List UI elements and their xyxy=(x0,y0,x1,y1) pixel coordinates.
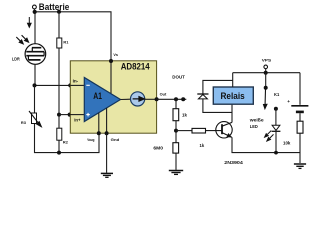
wire DOUT rail xyxy=(157,98,187,100)
arrow current direction down xyxy=(28,17,32,27)
resistor 10k xyxy=(283,121,303,145)
svg-text:Vaug: Vaug xyxy=(87,137,95,142)
svg-text:2N3904: 2N3904 xyxy=(224,160,243,165)
wire VPS rail xyxy=(233,72,300,74)
junction Gnd pin xyxy=(105,131,109,135)
wire 1k to base junction xyxy=(175,121,177,143)
ground symbol right xyxy=(294,164,306,168)
resistor R2 xyxy=(57,128,69,144)
wire out inner xyxy=(145,98,157,100)
svg-text:Gnd: Gnd xyxy=(111,137,120,142)
svg-text:AD8214: AD8214 xyxy=(121,61,150,71)
junction R2 bottom rail xyxy=(57,151,61,155)
svg-text:R1: R1 xyxy=(63,39,69,44)
svg-text:K1: K1 xyxy=(274,92,280,97)
junction In- at box edge xyxy=(68,83,72,87)
wire Vaug pin inner xyxy=(98,113,100,133)
svg-text:weiße: weiße xyxy=(249,117,265,122)
pin Out xyxy=(155,92,167,102)
transistor Q1 2N3904 xyxy=(216,122,244,165)
wire emitter down to rail xyxy=(232,137,300,152)
junction In+ at box edge xyxy=(68,113,72,117)
svg-text:1k: 1k xyxy=(200,143,205,148)
op-amp U1 AD8214 block xyxy=(70,61,156,133)
resistor 1k base xyxy=(192,128,206,148)
node VPS terminal xyxy=(262,58,272,75)
switch K1 xyxy=(264,73,280,111)
resistor R3 variable xyxy=(21,111,41,127)
junction DOUT end xyxy=(181,97,185,101)
relay K relais box xyxy=(213,87,253,104)
junction LED rail xyxy=(274,151,278,155)
wire diode branch top xyxy=(203,80,233,93)
arrow light ray 2 into LDR xyxy=(22,35,29,42)
wire base line xyxy=(176,130,192,132)
junction base tap xyxy=(174,129,178,133)
resistor 6M0 xyxy=(153,143,178,153)
junction battery node xyxy=(33,10,37,14)
svg-text:A1: A1 xyxy=(93,91,102,101)
LED D2 white xyxy=(249,117,281,131)
wire collector up to relay xyxy=(231,104,233,122)
ground symbol AD8214 xyxy=(101,173,113,177)
svg-text:Batterie: Batterie xyxy=(39,2,70,12)
svg-text:Vs: Vs xyxy=(113,53,118,57)
wire switch to LED xyxy=(275,109,277,126)
wire battery to 10k xyxy=(299,113,301,121)
wire In+ horizontal xyxy=(59,114,70,116)
current source output circle xyxy=(121,92,145,106)
photoresistor LDR xyxy=(12,44,46,65)
svg-text:In-: In- xyxy=(73,78,79,83)
resistor R1 xyxy=(57,38,69,48)
junction Vaug pin xyxy=(97,131,101,135)
svg-text:LED: LED xyxy=(250,124,258,129)
pin In- label and inner wire xyxy=(70,78,84,85)
wire Gnd pin inner xyxy=(106,108,108,133)
svg-text:R2: R2 xyxy=(63,140,69,145)
junction R1 top xyxy=(57,10,61,14)
op-amp A1 triangle xyxy=(84,78,120,122)
svg-text:LDR: LDR xyxy=(12,57,20,62)
wire 10k to ground xyxy=(299,133,301,163)
arrow light ray 1 into LDR xyxy=(16,37,23,44)
wire R2 bottom to rail xyxy=(58,140,60,152)
svg-text:+: + xyxy=(287,99,290,104)
wire DOUT column down xyxy=(175,99,177,108)
wire left column through R3 to bottom rail xyxy=(35,85,100,152)
wire LDR bottom to In- junction xyxy=(34,64,36,85)
svg-text:Relais: Relais xyxy=(221,91,245,101)
arrow LED emission 1 xyxy=(265,131,272,138)
battery B1 xyxy=(287,99,308,112)
wire VPS right column down xyxy=(299,73,301,105)
svg-text:R3: R3 xyxy=(21,120,27,125)
pin Vs label and wire xyxy=(109,53,118,96)
junction In+ divider node xyxy=(57,113,61,117)
svg-text:DOUT: DOUT xyxy=(172,75,185,80)
arrow LED emission 2 xyxy=(267,134,274,141)
wire 6M0 to ground xyxy=(175,153,177,170)
svg-text:10k: 10k xyxy=(283,141,291,146)
wire Gnd pin to ground xyxy=(106,133,108,173)
svg-text:In+: In+ xyxy=(74,118,81,123)
wire LDR column top xyxy=(34,14,36,44)
junction LDR bottom xyxy=(33,83,37,87)
wire base resistor to transistor xyxy=(206,130,222,132)
wire diode bottom to collector node xyxy=(203,99,232,113)
diode D1 flyback xyxy=(197,94,208,99)
wire R1 column xyxy=(58,12,60,128)
svg-text:1k: 1k xyxy=(182,112,187,117)
svg-text:6M0: 6M0 xyxy=(153,145,163,150)
node Batterie terminal xyxy=(33,2,70,12)
wire LED to rail xyxy=(275,132,277,153)
ground symbol 6M0 xyxy=(169,171,183,175)
junction DOUT branch xyxy=(174,97,178,101)
wire relay top to VPS rail xyxy=(232,73,234,87)
pin In+ label and inner wire xyxy=(70,115,85,123)
wire In- horizontal xyxy=(35,84,71,86)
svg-text:VPS: VPS xyxy=(262,58,272,63)
wire top rail from Batterie to Vs corner xyxy=(34,9,111,61)
resistor 1k pull-down xyxy=(173,109,187,121)
svg-text:Out: Out xyxy=(160,92,167,97)
